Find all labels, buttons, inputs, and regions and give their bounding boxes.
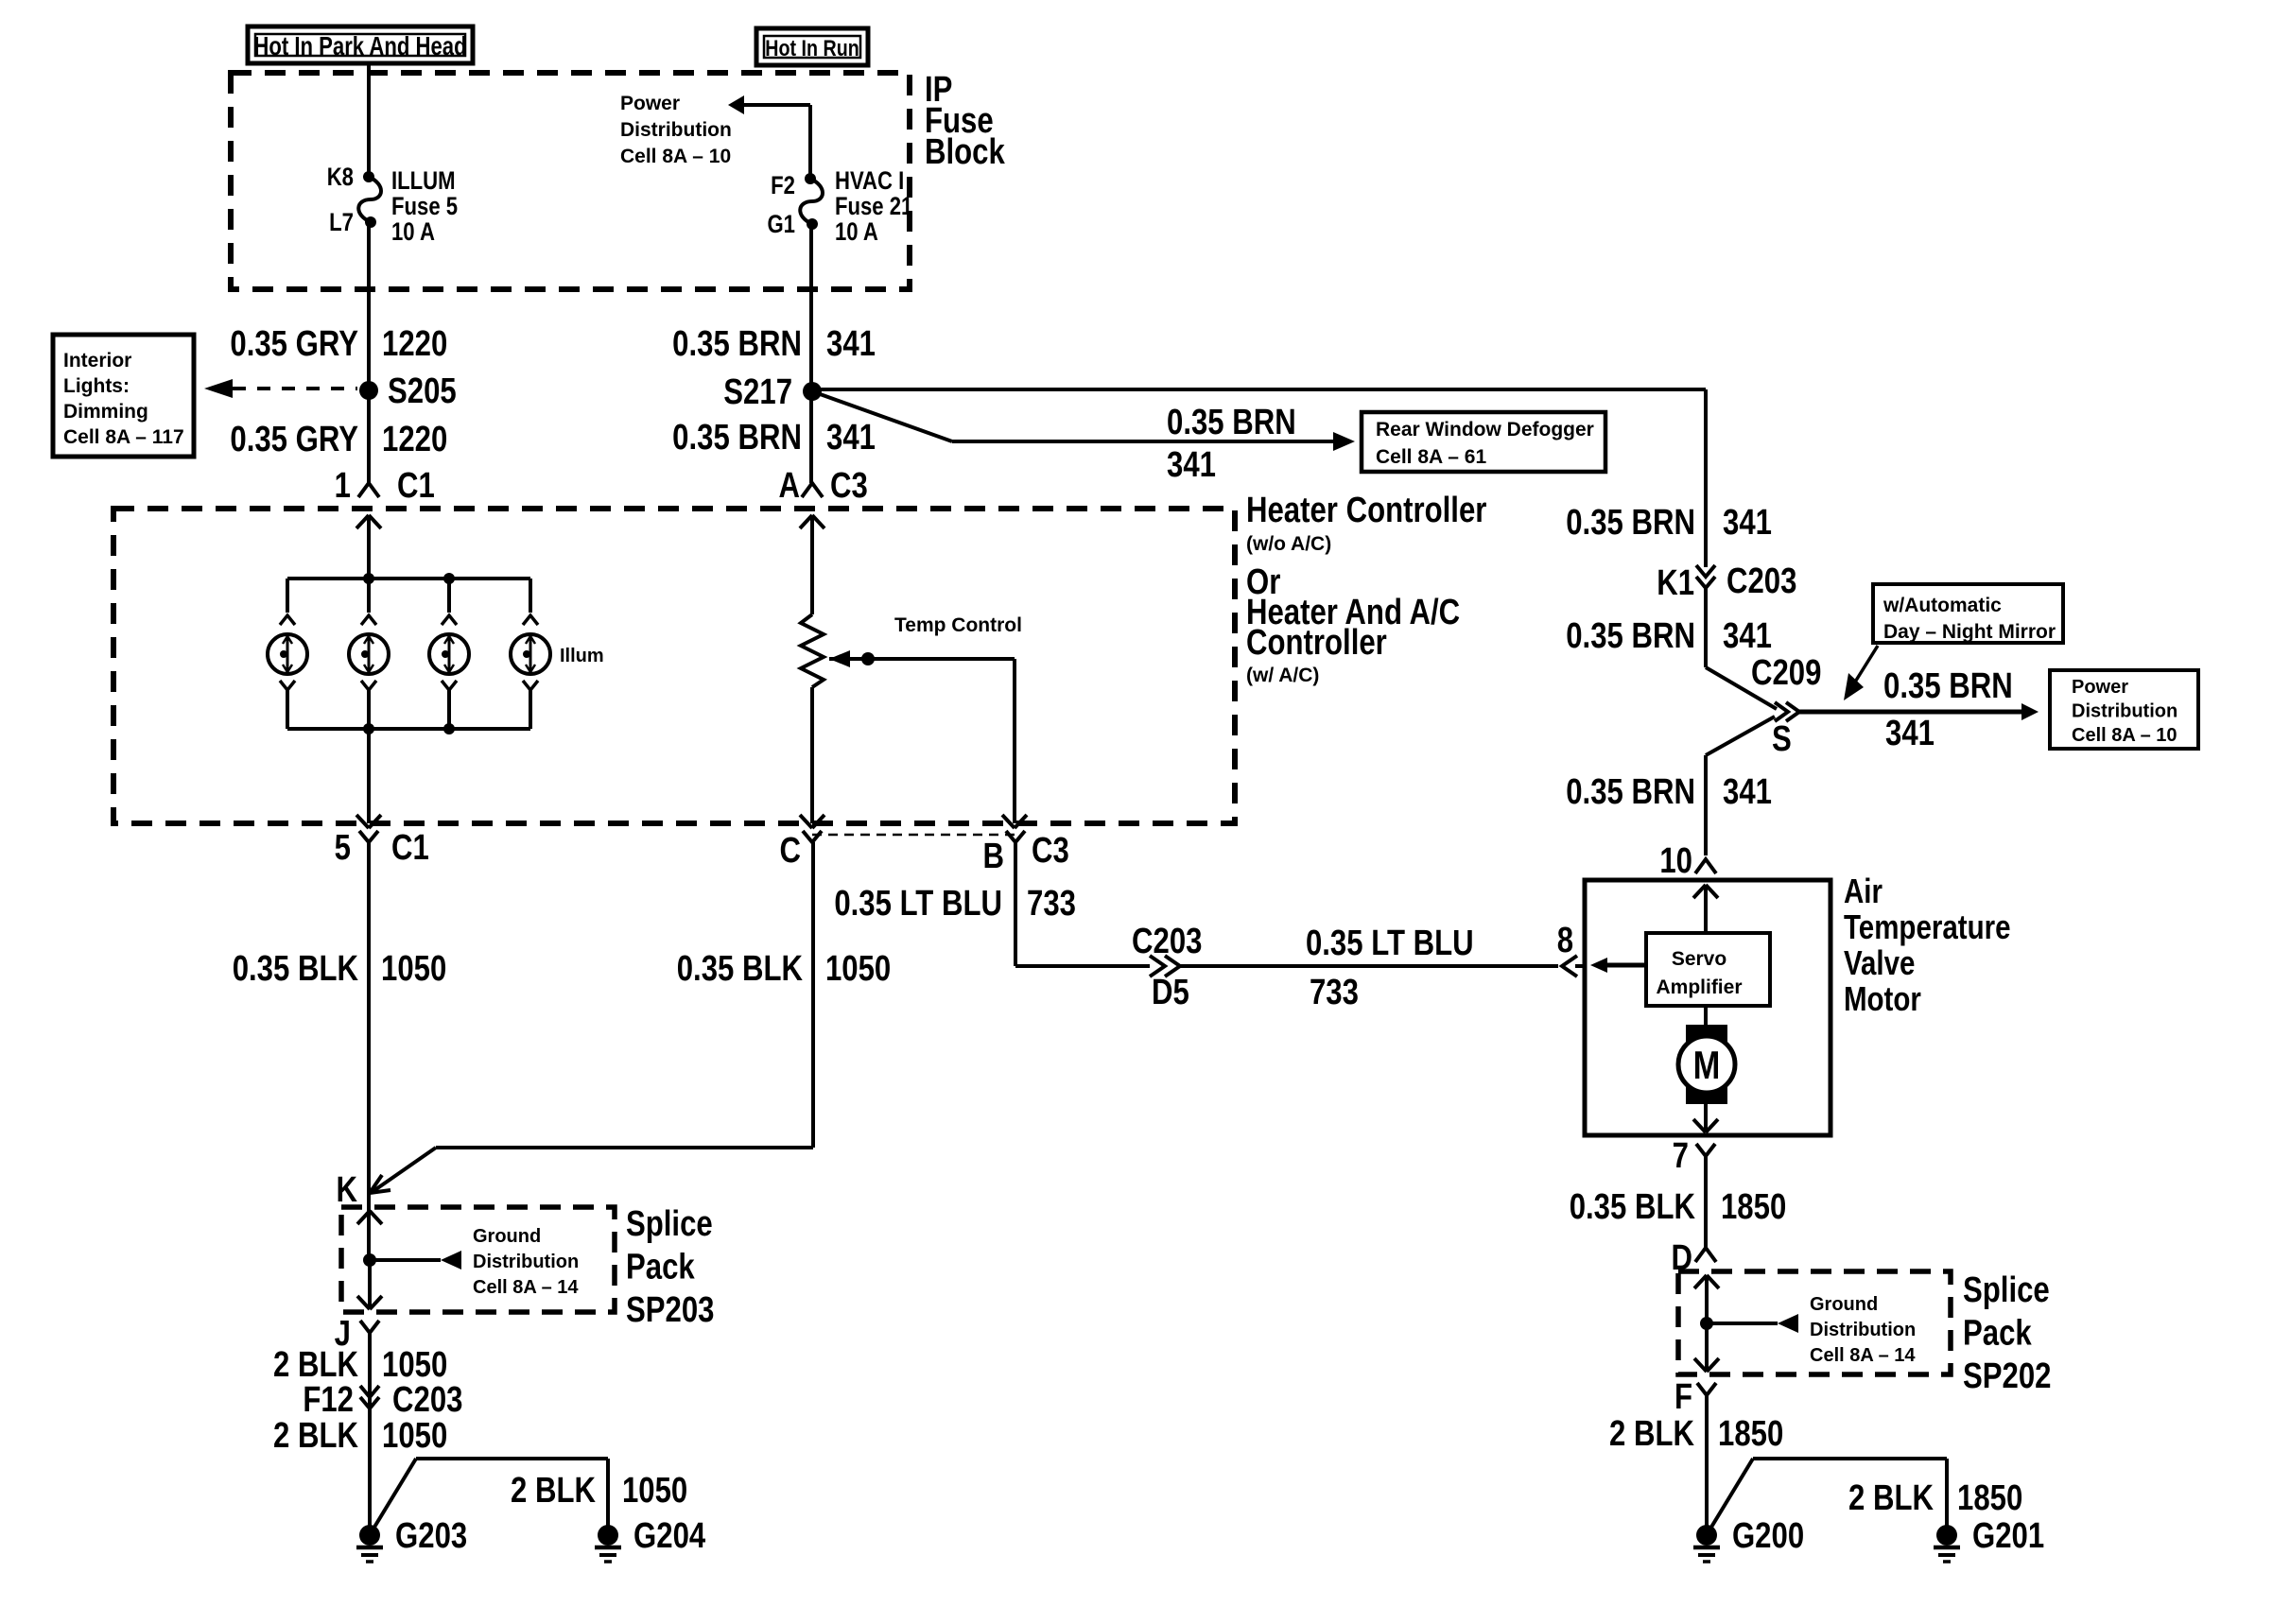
svg-text:8: 8 (1557, 921, 1573, 960)
svg-text:Distribution: Distribution (620, 119, 732, 141)
svg-text:SP202: SP202 (1963, 1356, 2052, 1396)
svg-text:Distribution: Distribution (473, 1252, 579, 1272)
svg-text:K1: K1 (1657, 563, 1694, 603)
svg-text:Amplifier: Amplifier (1656, 976, 1742, 998)
svg-text:Interior: Interior (63, 350, 131, 371)
svg-text:Distribution: Distribution (2072, 701, 2178, 722)
svg-text:7: 7 (1673, 1136, 1689, 1176)
svg-text:Illum: Illum (560, 646, 604, 666)
svg-text:HVAC I: HVAC I (835, 167, 904, 196)
svg-text:1850: 1850 (1721, 1187, 1786, 1227)
svg-text:1220: 1220 (382, 420, 447, 459)
svg-text:0.35 LT BLU: 0.35 LT BLU (1306, 924, 1474, 963)
svg-text:Hot In Run: Hot In Run (765, 35, 859, 60)
svg-text:D5: D5 (1152, 973, 1189, 1012)
svg-text:1050: 1050 (381, 949, 446, 989)
svg-text:Splice: Splice (626, 1204, 713, 1244)
svg-text:341: 341 (826, 418, 876, 458)
svg-text:G201: G201 (1972, 1516, 2044, 1556)
svg-text:1050: 1050 (382, 1416, 447, 1456)
svg-text:C203: C203 (1726, 561, 1796, 601)
svg-text:G203: G203 (395, 1516, 467, 1556)
svg-text:Valve: Valve (1844, 943, 1915, 981)
svg-text:Temp Control: Temp Control (894, 614, 1022, 636)
svg-text:0.35 BLK: 0.35 BLK (677, 949, 803, 989)
svg-text:1850: 1850 (1718, 1414, 1783, 1454)
svg-text:K: K (337, 1170, 358, 1210)
svg-text:A: A (778, 466, 800, 506)
svg-text:C1: C1 (397, 466, 435, 506)
svg-text:C209: C209 (1751, 653, 1821, 693)
svg-text:Dimming: Dimming (63, 401, 148, 423)
svg-text:341: 341 (826, 324, 876, 364)
svg-text:C3: C3 (830, 466, 868, 506)
svg-text:2 BLK: 2 BLK (273, 1416, 358, 1456)
svg-text:Heater Controller: Heater Controller (1246, 491, 1486, 530)
svg-text:Splice: Splice (1963, 1270, 2050, 1310)
svg-text:0.35 BLK: 0.35 BLK (1570, 1187, 1695, 1227)
svg-text:w/Automatic: w/Automatic (1883, 595, 2002, 616)
svg-text:Pack: Pack (1963, 1314, 2032, 1354)
svg-text:Cell 8A – 14: Cell 8A – 14 (473, 1277, 579, 1298)
svg-text:Cell 8A – 61: Cell 8A – 61 (1376, 446, 1486, 468)
svg-text:Distribution: Distribution (1810, 1320, 1916, 1340)
svg-text:0.35 BRN: 0.35 BRN (1566, 503, 1695, 543)
svg-text:0.35 BLK: 0.35 BLK (233, 949, 358, 989)
svg-text:341: 341 (1723, 616, 1772, 656)
svg-text:733: 733 (1310, 973, 1359, 1012)
svg-text:Cell 8A – 10: Cell 8A – 10 (620, 146, 731, 167)
svg-text:341: 341 (1167, 445, 1216, 485)
svg-text:0.35 GRY: 0.35 GRY (230, 324, 358, 364)
svg-text:F12: F12 (303, 1380, 354, 1420)
svg-text:D: D (1671, 1238, 1692, 1278)
svg-text:M: M (1693, 1044, 1721, 1088)
svg-text:10 A: 10 A (835, 218, 878, 247)
svg-text:Cell 8A – 14: Cell 8A – 14 (1810, 1345, 1916, 1366)
svg-text:C203: C203 (392, 1380, 462, 1420)
svg-text:G1: G1 (767, 211, 795, 239)
svg-text:Ground: Ground (473, 1226, 541, 1247)
svg-text:C1: C1 (391, 828, 429, 868)
svg-text:0.35 BRN: 0.35 BRN (1566, 616, 1695, 656)
svg-text:2 BLK: 2 BLK (1609, 1414, 1694, 1454)
svg-text:5: 5 (335, 828, 351, 868)
svg-text:C: C (779, 831, 801, 871)
svg-text:Servo: Servo (1672, 948, 1726, 970)
svg-text:2 BLK: 2 BLK (273, 1345, 358, 1385)
svg-text:(w/o A/C): (w/o A/C) (1246, 533, 1331, 555)
svg-text:1050: 1050 (825, 949, 891, 989)
svg-text:341: 341 (1723, 772, 1772, 812)
svg-text:733: 733 (1027, 884, 1076, 924)
svg-text:G204: G204 (633, 1516, 706, 1556)
svg-text:0.35 GRY: 0.35 GRY (230, 420, 358, 459)
svg-text:Fuse 21: Fuse 21 (835, 193, 913, 221)
svg-text:0.35 BRN: 0.35 BRN (672, 324, 802, 364)
svg-text:341: 341 (1885, 714, 1935, 753)
svg-text:Fuse 5: Fuse 5 (391, 193, 458, 221)
svg-text:Power: Power (2072, 677, 2128, 698)
svg-text:1050: 1050 (622, 1471, 687, 1511)
svg-text:Pack: Pack (626, 1248, 695, 1287)
svg-text:L7: L7 (329, 209, 354, 237)
svg-text:Controller: Controller (1246, 623, 1387, 663)
svg-text:1850: 1850 (1957, 1478, 2022, 1518)
svg-text:Hot In Park And Head: Hot In Park And Head (253, 32, 466, 61)
svg-text:Power: Power (620, 93, 680, 114)
svg-text:Motor: Motor (1844, 979, 1921, 1017)
svg-text:Lights:: Lights: (63, 375, 130, 397)
svg-text:1220: 1220 (382, 324, 447, 364)
svg-text:Rear Window Defogger: Rear Window Defogger (1376, 419, 1594, 441)
svg-text:S205: S205 (388, 371, 457, 411)
svg-text:Cell 8A – 117: Cell 8A – 117 (63, 426, 184, 448)
svg-text:Air: Air (1844, 872, 1883, 909)
svg-text:0.35 LT BLU: 0.35 LT BLU (834, 884, 1002, 924)
svg-text:341: 341 (1723, 503, 1772, 543)
svg-text:Ground: Ground (1810, 1294, 1878, 1315)
svg-text:Temperature: Temperature (1844, 907, 2011, 945)
svg-text:C3: C3 (1032, 831, 1069, 871)
svg-text:Day – Night Mirror: Day – Night Mirror (1883, 621, 2056, 643)
svg-text:2 BLK: 2 BLK (511, 1471, 596, 1511)
svg-text:0.35 BRN: 0.35 BRN (1566, 772, 1695, 812)
svg-text:B: B (982, 837, 1004, 876)
svg-text:1: 1 (335, 466, 351, 506)
svg-text:1050: 1050 (382, 1345, 447, 1385)
svg-text:ILLUM: ILLUM (391, 167, 456, 196)
svg-text:(w/ A/C): (w/ A/C) (1246, 665, 1319, 686)
svg-text:Block: Block (925, 132, 1005, 172)
svg-text:C203: C203 (1132, 922, 1202, 961)
svg-text:F: F (1674, 1377, 1692, 1417)
svg-text:10: 10 (1659, 841, 1692, 881)
svg-text:S217: S217 (723, 372, 792, 412)
svg-text:S: S (1772, 719, 1792, 759)
svg-text:Cell 8A – 10: Cell 8A – 10 (2072, 725, 2178, 746)
svg-text:G200: G200 (1732, 1516, 1804, 1556)
svg-text:K8: K8 (327, 164, 354, 192)
svg-text:10 A: 10 A (391, 218, 435, 247)
svg-text:0.35 BRN: 0.35 BRN (1167, 403, 1296, 442)
svg-text:0.35 BRN: 0.35 BRN (1883, 666, 2013, 706)
svg-text:0.35 BRN: 0.35 BRN (672, 418, 802, 458)
svg-text:SP203: SP203 (626, 1290, 715, 1330)
svg-text:F2: F2 (771, 172, 795, 200)
svg-text:2 BLK: 2 BLK (1848, 1478, 1934, 1518)
